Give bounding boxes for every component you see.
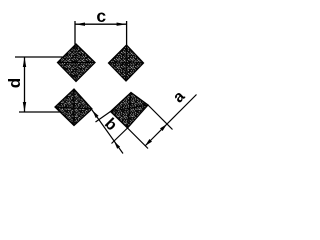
dimension d arrow up (23, 57, 26, 67)
dimension b side extension S1 (96, 112, 111, 123)
dimension c extension line right (126, 21, 128, 46)
dimension a line (145, 95, 197, 147)
dimension b line (92, 110, 123, 154)
diamond knob top-left (58, 44, 96, 82)
dimension a extension through right vertex (148, 105, 173, 130)
dimension a arrow SW (145, 139, 152, 146)
svg-text:c: c (96, 6, 106, 26)
dimension a arrow NE (160, 124, 167, 131)
diamond knob bottom-right (111, 93, 149, 129)
dimension d extension line top (15, 56, 63, 58)
dimension c arrow right (117, 23, 127, 26)
dimension d arrow down (23, 102, 26, 112)
dimension d line (24, 57, 26, 112)
dimension b side extension S2 (112, 128, 128, 144)
dimension c arrow left (75, 23, 85, 26)
dimension c extension line left (74, 21, 76, 45)
diamond knob bottom-left (55, 89, 92, 126)
dimension b arrow SE (114, 141, 120, 149)
svg-text:d: d (5, 78, 24, 88)
dimension b arrow NW (93, 111, 99, 119)
dimension a extension through bottom vertex (128, 128, 149, 149)
dimension d extension line bottom (19, 111, 60, 113)
dimension c line (75, 23, 127, 25)
diamond knob top-right (109, 45, 144, 81)
